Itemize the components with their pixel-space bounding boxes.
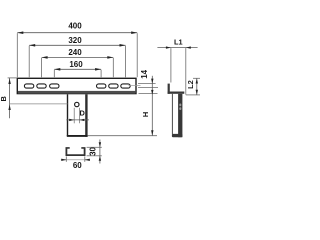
extension slot bottom xyxy=(138,86,158,88)
dimension L1 xyxy=(157,37,197,94)
slot 6 xyxy=(121,84,130,88)
slot 5 xyxy=(109,84,118,88)
rail body (front view) xyxy=(17,78,136,93)
side view front wall (thin) xyxy=(172,94,173,134)
dimension 60 xyxy=(61,156,90,170)
dimension 320 xyxy=(29,36,125,77)
slot centerline to side xyxy=(129,85,141,87)
svg-text:60: 60 xyxy=(73,161,82,170)
slot 4 xyxy=(97,84,106,88)
svg-text:160: 160 xyxy=(69,60,83,69)
dimension 14 and H shared line xyxy=(151,76,153,136)
svg-text:H: H xyxy=(141,112,150,117)
svg-text:320: 320 xyxy=(68,36,82,45)
dimension 160 xyxy=(54,60,101,77)
side view bottom xyxy=(172,134,183,137)
dimension B xyxy=(0,78,17,118)
svg-text:L1: L1 xyxy=(174,37,183,46)
svg-text:240: 240 xyxy=(68,48,82,57)
slot 1 xyxy=(24,84,33,88)
svg-text:D: D xyxy=(79,108,85,117)
svg-text:400: 400 xyxy=(68,22,82,31)
side view back wall xyxy=(178,94,182,137)
slot 3 xyxy=(50,84,59,88)
dimension L2 xyxy=(186,78,200,95)
dimension 400 xyxy=(17,22,137,78)
svg-text:14: 14 xyxy=(140,69,149,78)
projection line channel bottom to side view xyxy=(88,135,157,137)
side view top flange xyxy=(168,92,185,94)
side view top lip xyxy=(168,84,170,94)
extension rail bottom xyxy=(139,93,158,95)
svg-text:L2: L2 xyxy=(186,80,195,89)
extension slot top xyxy=(138,83,156,85)
dimension 30 xyxy=(87,140,102,164)
hole D xyxy=(75,102,79,106)
side wall slot marks xyxy=(179,104,181,107)
dimension 240 xyxy=(42,48,114,77)
slot 2 xyxy=(37,84,46,88)
hole centerline xyxy=(10,103,68,105)
center channel (front view) xyxy=(67,94,88,137)
svg-text:B: B xyxy=(0,96,8,101)
dimension D xyxy=(66,108,89,124)
svg-text:30: 30 xyxy=(88,146,97,155)
U profile (section) xyxy=(65,147,85,156)
